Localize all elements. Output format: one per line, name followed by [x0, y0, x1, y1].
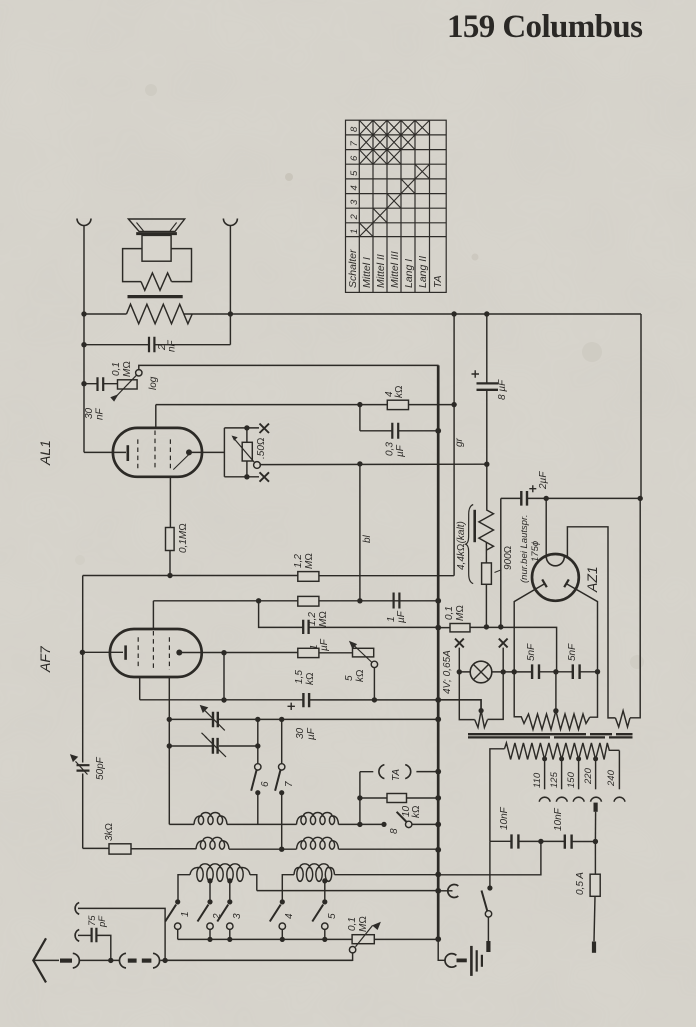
- node row1 bus: [435, 716, 441, 722]
- node row601 bl: [357, 598, 362, 603]
- svg-text:3kΩ: 3kΩ: [104, 823, 115, 841]
- wire 10k row: [360, 797, 438, 799]
- wire switch8 to bus: [412, 823, 439, 825]
- wire wiper to bus top: [139, 365, 439, 370]
- terminal hook A1: [75, 903, 79, 915]
- node sw4 row: [280, 937, 285, 942]
- node mains switch top: [487, 885, 492, 890]
- potentiometer 0,1M antenna box: [352, 935, 374, 944]
- switch 7 circle: [279, 764, 285, 770]
- plug pin 220 tap: [593, 803, 597, 812]
- transformer core line2: [468, 736, 633, 738]
- capacitor trimmer varco2: [213, 738, 218, 754]
- node 2uF right vertical: [638, 496, 643, 501]
- wire row 601: [153, 600, 438, 602]
- wire wiper to antenna row: [165, 953, 353, 961]
- wire 224 column: [223, 653, 225, 700]
- lamp dial: [470, 661, 492, 683]
- svg-text:1: 1: [180, 911, 191, 917]
- svg-text:TA: TA: [432, 275, 444, 288]
- svg-text:gr: gr: [454, 437, 465, 447]
- svg-text:5nF: 5nF: [567, 643, 578, 661]
- svg-text:bl: bl: [362, 534, 373, 543]
- earth bar 3: [481, 955, 483, 967]
- wire switch to plug: [487, 917, 489, 941]
- potentiometer 0,1M log wiper circle: [136, 370, 142, 376]
- node row3b bus: [435, 888, 441, 894]
- node varco row1 left: [167, 717, 172, 722]
- svg-text:µF: µF: [319, 638, 330, 651]
- coil L3 tap dots: [207, 878, 212, 883]
- winding HT zigzag: [514, 711, 590, 730]
- terminal TA left: [379, 765, 385, 779]
- svg-text:0,1: 0,1: [444, 606, 455, 620]
- potentiometer 0,1M log arrow: [117, 375, 137, 395]
- svg-text:kΩ: kΩ: [394, 385, 405, 398]
- switch 7 bottom dot: [279, 790, 284, 795]
- loudspeaker magnet box: [142, 235, 171, 261]
- resistor 10kOhm: [387, 794, 407, 803]
- resistor 1,2M lower: [298, 596, 319, 606]
- svg-text:1: 1: [349, 229, 360, 234]
- node row601 at 258: [256, 598, 261, 603]
- coil L4 left lead: [282, 875, 294, 891]
- tap 150 lead and socket: [578, 759, 580, 789]
- SEC_SPEAKER: [77, 219, 641, 453]
- svg-text:900Ω: 900Ω: [503, 546, 514, 570]
- svg-text:kΩ: kΩ: [355, 669, 366, 682]
- svg-text:6: 6: [349, 155, 360, 161]
- potentiometer 50ohm wiper circle: [254, 462, 261, 469]
- wire L3 tap to sw3: [229, 881, 231, 902]
- wire mains switch vertical: [489, 841, 491, 888]
- tube AZ1 electrode right: [564, 579, 569, 587]
- node lamp row AZ1 left: [512, 669, 517, 674]
- node 2uF AZ1 cathode: [544, 496, 549, 501]
- node row1 sw7: [279, 717, 284, 722]
- svg-text:0,1: 0,1: [347, 917, 358, 931]
- SEC_PSU: [438, 314, 643, 841]
- tube AL1 anode diagonal: [173, 453, 190, 469]
- capacitor 10nF left: [512, 834, 519, 848]
- node 50ohm top: [244, 425, 249, 430]
- tap dot 150: [576, 756, 581, 761]
- terminal hook right speaker: [223, 219, 237, 226]
- wire primary left lead: [490, 749, 505, 842]
- tube AL1 cathode bar: [127, 445, 130, 461]
- node 0,1M on row 575: [167, 573, 172, 578]
- svg-text:6: 6: [260, 781, 271, 787]
- svg-text:(nur.bei Lautspr.: (nur.bei Lautspr.: [519, 515, 530, 583]
- node 8uF bottom: [484, 462, 489, 467]
- node switch8 left: [381, 822, 386, 827]
- svg-text:4,4kΩ(kalt): 4,4kΩ(kalt): [456, 521, 467, 570]
- tap 240 lead and socket: [618, 751, 620, 790]
- switch 8 blade: [397, 812, 407, 822]
- svg-text:AF7: AF7: [37, 645, 53, 673]
- svg-text:175ɸ: 175ɸ: [530, 541, 541, 562]
- wire AL1 grid pin: [155, 405, 157, 428]
- potentiometer 5kOhm box: [353, 648, 374, 657]
- potentiometer 50ohm arrow: [234, 439, 255, 463]
- potentiometer 5kOhm arrow: [354, 645, 373, 663]
- wire 4,4k column upper: [486, 464, 488, 510]
- svg-text:30: 30: [84, 407, 95, 419]
- antenna socket arc: [73, 953, 80, 968]
- capacitor 30uF electrolytic: [303, 693, 309, 707]
- loudspeaker cone: [128, 219, 184, 231]
- svg-text:240: 240: [606, 769, 617, 787]
- tube AZ1 envelope: [532, 554, 579, 601]
- wire bl vertical: [359, 464, 361, 601]
- svg-text:8 µF: 8 µF: [497, 379, 508, 400]
- wire AF7 anode row: [179, 652, 352, 654]
- resistor 0,1M vertical: [166, 528, 175, 551]
- wire 0,1M lamp row: [438, 627, 556, 671]
- resistor 4,4kOhm zigzag: [479, 510, 494, 550]
- field coil box: [123, 249, 192, 282]
- svg-text:8: 8: [389, 828, 400, 834]
- wire TA vertical: [359, 772, 361, 825]
- terminal hook A2: [75, 930, 79, 942]
- wire 4,4k to 900ohm: [485, 542, 487, 563]
- svg-text:159 Columbus: 159 Columbus: [447, 9, 643, 45]
- svg-text:1,2: 1,2: [293, 554, 304, 568]
- wire 3k row: [83, 847, 196, 849]
- winding AZ1 filament zigzag: [615, 711, 630, 727]
- tube AF7 anode dot: [176, 650, 182, 656]
- wire L4 tap to sw5: [324, 881, 326, 902]
- capacitor 30nF: [98, 377, 104, 391]
- tube AZ1 anode dome: [546, 557, 564, 566]
- svg-text:5: 5: [344, 675, 355, 681]
- wire 50ohm left rail: [223, 428, 225, 477]
- resistor 0,1MOhm lamp row: [450, 624, 470, 632]
- node lamp right: [501, 669, 506, 674]
- node 0,3uF bus: [435, 428, 441, 434]
- arrow varco1: [205, 710, 225, 730]
- SEC_TUNER: [131, 765, 441, 961]
- wire left column AF7: [82, 576, 84, 763]
- node 10k row left: [357, 795, 362, 800]
- tube AF7 cathode bar: [124, 645, 127, 659]
- field coil zigzag: [141, 273, 172, 290]
- node 4k row gr: [451, 402, 456, 407]
- tap 110 lead and socket: [544, 759, 546, 789]
- tube AF7 envelope: [110, 629, 202, 677]
- wire switch common row: [178, 938, 439, 940]
- wire 4k row: [156, 404, 454, 406]
- tap dot 220: [593, 756, 598, 761]
- earth bar 1: [470, 946, 473, 976]
- table horizontal lines: [346, 135, 447, 237]
- earth bar 2: [476, 950, 478, 971]
- switch 1: [175, 899, 180, 904]
- node row2 sw7: [279, 847, 284, 852]
- svg-text:µF: µF: [306, 727, 317, 740]
- wire AL1 cathode lead: [84, 451, 126, 453]
- table frame: [346, 120, 447, 292]
- wire A1 row: [78, 908, 165, 960]
- svg-text:125: 125: [549, 771, 560, 788]
- node row700 at 224: [221, 697, 226, 702]
- trimmer varco2 tbar: [202, 733, 227, 757]
- antenna plug pin: [60, 958, 72, 962]
- svg-text:30: 30: [295, 727, 306, 739]
- svg-text:150: 150: [566, 771, 577, 788]
- switch 6 blade: [251, 770, 256, 791]
- tube AL1 anode dot: [186, 449, 192, 455]
- tap 220 lead and socket: [595, 759, 597, 789]
- plug link pin2: [142, 958, 152, 962]
- wire link to node: [160, 959, 352, 961]
- node top-left junction: [81, 311, 86, 316]
- tube AL1 grid3 dashes: [169, 439, 171, 470]
- node 75pF row: [108, 958, 113, 963]
- svg-text:MΩ: MΩ: [318, 611, 329, 627]
- svg-text:.50Ω: .50Ω: [256, 437, 267, 459]
- node bl top: [357, 461, 362, 466]
- coil L3 leads: [178, 875, 190, 902]
- svg-text:5nF: 5nF: [526, 643, 537, 661]
- svg-text:220: 220: [583, 767, 594, 785]
- table vertical lines: [359, 120, 429, 292]
- potentiometer 0,1M log box: [118, 380, 138, 389]
- coil L4: [294, 864, 335, 875]
- svg-text:kΩ: kΩ: [305, 672, 316, 685]
- resistor 4kOhm: [387, 400, 408, 409]
- svg-text:4: 4: [349, 185, 360, 190]
- SEC_STAINS: [75, 84, 644, 669]
- tube AF7 grid2 dashes: [152, 631, 154, 668]
- svg-text:TA: TA: [391, 769, 402, 781]
- node 8uF top: [484, 311, 489, 316]
- wire right speaker vertical: [229, 226, 231, 345]
- SEC_ANT: [33, 903, 352, 983]
- table X marks: [359, 120, 429, 236]
- svg-text:MΩ: MΩ: [455, 605, 466, 621]
- node TA bus: [435, 769, 441, 775]
- plug link right arc: [153, 953, 160, 968]
- svg-text:1,2: 1,2: [307, 612, 318, 626]
- node lamp left: [457, 669, 462, 674]
- node 10nF mid: [538, 839, 543, 844]
- capacitor 50pF trimmer: [77, 765, 90, 770]
- wire coil row1: [169, 823, 384, 825]
- wire lamp right vertical: [488, 648, 504, 720]
- node gr top: [451, 311, 456, 316]
- svg-text:µF: µF: [395, 444, 406, 457]
- wire AF7 cathode lead: [82, 651, 123, 653]
- wire sw6 down: [257, 793, 259, 825]
- wire plug to 10nF row: [594, 812, 596, 842]
- wire AZ1 filament top: [567, 527, 615, 718]
- switch 4: [280, 899, 285, 904]
- bar beside 4,4k: [473, 510, 476, 542]
- node antenna row bus: [435, 936, 441, 942]
- svg-text:1,5: 1,5: [294, 670, 305, 684]
- capacitor 5nF right: [573, 664, 580, 679]
- brace 4,4k kalt: [466, 505, 474, 584]
- plus 2uF: [529, 485, 536, 492]
- mains plug pin right: [592, 942, 596, 953]
- capacitor 5nF left: [532, 664, 539, 679]
- wire row 627: [259, 601, 439, 628]
- tube AL1 grid1 dashes: [137, 439, 139, 468]
- wire sw6 vertical upper: [257, 719, 259, 764]
- switch 6 bottom dot: [255, 790, 260, 795]
- wire 4V tap to bus: [438, 700, 481, 711]
- winding 4V lamp zigzag: [475, 711, 488, 728]
- SEC_TITLE: [447, 9, 643, 45]
- svg-text:0,3: 0,3: [385, 442, 396, 456]
- tube AL1 grid2 dashes: [154, 431, 156, 469]
- switch 5: [322, 899, 327, 904]
- svg-text:AZ1: AZ1: [584, 566, 600, 593]
- wire 10nF row: [490, 840, 596, 842]
- node row2 sw6: [255, 743, 260, 748]
- svg-text:MΩ: MΩ: [122, 361, 133, 377]
- node sw2 row: [207, 937, 212, 942]
- wire nur-bei vertical: [500, 498, 502, 627]
- transformer primary winding zigzag: [127, 304, 193, 324]
- chassis terminal hook: [448, 885, 459, 898]
- svg-text:nF: nF: [95, 407, 106, 420]
- node lamp row mid: [553, 669, 558, 674]
- svg-text:5: 5: [349, 170, 360, 176]
- wire 30nF stub: [84, 383, 118, 385]
- svg-text:3: 3: [349, 199, 360, 205]
- SEC_AF7: [70, 629, 481, 854]
- switch 6 circle: [255, 764, 261, 770]
- node row1 sw6: [255, 717, 260, 722]
- node 4k row bl: [357, 402, 362, 407]
- wire 2nF row: [84, 344, 230, 346]
- node row1 bus: [435, 822, 441, 828]
- wire AZ1 cathode down: [545, 498, 547, 557]
- wire 0,3uF row: [360, 430, 438, 432]
- mains switch blade: [482, 891, 488, 912]
- transformer core: [128, 295, 183, 298]
- SEC_MAINS: [438, 803, 600, 976]
- wire varco row1: [169, 718, 438, 720]
- coil L3: [190, 864, 250, 875]
- tube AL1 envelope: [113, 428, 202, 477]
- wire row3b: [257, 890, 438, 892]
- wire sw7 down: [281, 793, 283, 850]
- pointer 900 ohm: [495, 570, 502, 573]
- wire TA row: [360, 771, 438, 773]
- resistor 3kOhm: [109, 844, 131, 854]
- node varco row2 left: [167, 743, 172, 748]
- node 50ohm bottom: [244, 474, 249, 479]
- potentiometer 0,1M antenna arrow: [356, 926, 373, 947]
- resistor 1,2M upper: [298, 572, 319, 582]
- wire A2 to 75pF: [78, 934, 91, 936]
- capacitor tuning varco1: [213, 712, 218, 728]
- node row700 bus: [435, 697, 441, 703]
- wire 50ohm bottom rail: [224, 476, 259, 478]
- transformer core line1: [468, 733, 633, 735]
- wire AZ1 anode left pin: [514, 584, 545, 717]
- terminal TA right: [405, 765, 411, 779]
- node sw3 row: [227, 937, 232, 942]
- svg-text:Lang II: Lang II: [417, 256, 429, 288]
- wire right vertical long: [630, 314, 641, 718]
- plug link pin1: [128, 958, 137, 962]
- wire left speaker vertical: [83, 226, 85, 453]
- wire L4 right lead: [335, 874, 439, 876]
- svg-text:8: 8: [349, 126, 360, 132]
- coil L2a: [297, 813, 339, 825]
- node 2nF row left: [81, 342, 86, 347]
- svg-text:5: 5: [327, 913, 338, 919]
- node wiper row700: [372, 697, 377, 702]
- wire 5k wiper down: [373, 667, 375, 700]
- wire sw7 vertical upper: [281, 719, 283, 764]
- wire row 700: [140, 700, 481, 711]
- svg-text:10nF: 10nF: [553, 807, 564, 831]
- capacitor 1uF row627: [303, 620, 308, 634]
- wire 50ohm top rail: [224, 427, 259, 429]
- svg-text:7: 7: [284, 781, 295, 787]
- wire 10nF mid down to bus row: [438, 841, 541, 874]
- wire L3 right lead down: [250, 875, 257, 891]
- loudspeaker voice coil bar: [136, 232, 177, 235]
- chassis terminal stub: [438, 890, 452, 892]
- tap 125 lead and socket: [561, 759, 563, 789]
- X mark lamp right: [499, 639, 508, 648]
- svg-text:Lang I: Lang I: [403, 259, 415, 288]
- switch 8 circle: [406, 821, 412, 827]
- svg-text:Schalter: Schalter: [347, 249, 359, 288]
- svg-text:50pF: 50pF: [95, 756, 106, 780]
- resistor 900 Ohm box: [482, 563, 492, 584]
- X mark lamp left: [455, 639, 464, 648]
- fuse 0,5A box: [590, 874, 600, 896]
- capacitor 0,3uF: [392, 423, 398, 439]
- antenna symbol: [33, 938, 46, 982]
- wire HT centertap: [555, 672, 557, 710]
- coil L1b: [196, 837, 229, 849]
- coil L4 tap dot: [322, 878, 327, 883]
- wire varco row2: [169, 745, 257, 747]
- tube AF7 grid1 dashes: [137, 637, 139, 668]
- X mark bottom 50ohm: [260, 472, 270, 481]
- wire coil row2: [131, 848, 438, 850]
- tube AZ1 electrode left: [542, 579, 547, 587]
- node 4,4k bottom: [484, 624, 489, 629]
- svg-text:2µF: 2µF: [538, 471, 549, 490]
- wire 0,1M to AVC row: [169, 551, 171, 576]
- capacitor 8uF electrolytic: [477, 383, 499, 389]
- svg-text:4: 4: [284, 913, 295, 919]
- SEC_TABLE: [346, 120, 447, 292]
- switch 2: [207, 899, 212, 904]
- svg-text:µF: µF: [396, 610, 407, 623]
- svg-text:0,1: 0,1: [111, 362, 122, 376]
- wire bus to ground: [438, 939, 445, 960]
- svg-text:Mittel III: Mittel III: [389, 251, 401, 288]
- svg-text:kΩ: kΩ: [411, 805, 422, 818]
- wire lamp left vertical: [459, 648, 474, 720]
- wire 8uF column: [486, 314, 488, 464]
- wire AL1 anode lead: [189, 451, 224, 453]
- wire 900ohm down to 0,1M row: [485, 584, 487, 627]
- wire antenna row mid: [80, 959, 120, 961]
- svg-text:Mittel I: Mittel I: [361, 257, 373, 288]
- svg-text:0,1MΩ: 0,1MΩ: [178, 523, 189, 553]
